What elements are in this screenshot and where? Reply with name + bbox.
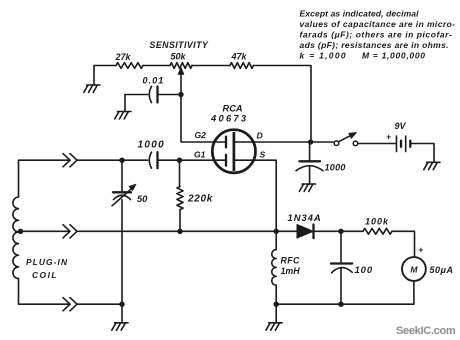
battery 9V [397,136,406,152]
ground (bypass cap) [299,184,315,191]
switch S1 [334,141,339,146]
node filter cap bottom [338,302,343,307]
wire battery to ground [410,144,434,163]
node source junction [274,229,279,234]
svg-text:G2: G2 [195,130,207,140]
connector chevrons bottom tap [63,298,77,311]
wire top rail segments [94,66,311,141]
svg-text:+: + [386,132,391,142]
diode 1N34A [297,225,313,239]
meter M 50uA [402,257,426,281]
wire wiper to G2 [181,95,226,143]
svg-text:1000: 1000 [138,140,165,151]
svg-text:S: S [260,150,266,160]
svg-text:RFC: RFC [281,256,301,266]
wire drain junction to switch [311,141,334,143]
resistor 27k [116,63,143,69]
svg-text:27k: 27k [115,52,132,62]
ground (battery) [424,162,440,169]
svg-text:220k: 220k [187,194,213,205]
svg-text:47k: 47k [231,52,248,62]
svg-text:9V: 9V [395,121,407,131]
resistor 100k [341,230,363,232]
resistor 220k [179,160,181,186]
svg-text:G1: G1 [194,150,206,160]
svg-text:1N34A: 1N34A [288,212,322,223]
connector chevrons top tap [63,154,77,167]
svg-text:1000: 1000 [325,163,346,173]
svg-text:RCA: RCA [223,104,243,114]
svg-text:values of capacitance are in m: values of capacitance are in micro- [300,19,456,29]
svg-text:SENSITIVITY: SENSITIVITY [150,40,209,50]
svg-text:100: 100 [355,265,374,276]
node G1/220k junction [177,158,182,163]
svg-text:50: 50 [137,194,148,204]
svg-text:COIL: COIL [32,270,58,280]
transistor Q1 RCA 40673 dual-gate MOSFET body [212,130,255,173]
svg-text:M: M [410,264,418,274]
svg-text:PLUG-IN: PLUG-IN [26,257,68,267]
node diode output [338,229,343,234]
MOSFET channel [233,132,236,171]
inductor plug-in coil [18,160,20,197]
svg-text:40673: 40673 [210,114,248,124]
node drain junction [308,139,313,144]
potentiometer 50k [170,63,192,69]
svg-text:farads (μF); others are in pic: farads (μF); others are in picofar- [300,30,453,40]
gate bar G2 [225,137,227,148]
gate bar G1 [225,155,227,166]
svg-text:0.01: 0.01 [143,76,165,86]
node bottom-left ground junction [119,302,124,307]
wire middle rail [21,230,342,232]
wire drain lead [234,141,311,143]
inductor RFC 1mH [275,231,277,249]
svg-text:+: + [418,245,423,255]
svg-text:SeekIC.com: SeekIC.com [396,325,456,337]
svg-text:100k: 100k [365,217,389,227]
svg-text:1mH: 1mH [281,266,301,276]
svg-text:M = 1,000,000: M = 1,000,000 [362,51,426,61]
svg-text:D: D [257,131,263,141]
svg-text:50μA: 50μA [430,265,454,275]
node var-cap top [119,158,124,163]
capacitor 0.01 [125,94,181,96]
ground (RFC bottom) [275,304,277,323]
pot wiper arrow [180,72,182,95]
resistor 47k [230,63,254,69]
capacitor 1000 (coupling) [149,152,151,168]
node 220k bottom [177,229,182,234]
wire source lead [234,160,276,231]
svg-text:Except as indicated, decimal: Except as indicated, decimal [300,9,420,19]
ground (0.01 cap) [124,95,126,112]
connector chevrons mid tap [63,225,77,238]
node wiper/0.01 junction [178,92,183,97]
variable capacitor 50 [121,160,123,192]
wire switch to battery [358,143,396,145]
svg-text:ads (pF); resistances are in o: ads (pF); resistances are in ohms. [300,40,449,50]
wire meter bottom rail [276,281,414,304]
svg-text:50k: 50k [171,52,187,62]
capacitor 1000 (bypass) [309,142,311,161]
ground (left of 27k) [93,66,95,86]
wire top tap / G1 rail [19,159,227,161]
node RFC bottom [274,302,279,307]
ground (tank bottom) [121,304,123,323]
node coil mid tap [18,229,23,234]
svg-text:k = 1,000: k = 1,000 [300,51,347,61]
capacitor 100 [340,231,342,263]
